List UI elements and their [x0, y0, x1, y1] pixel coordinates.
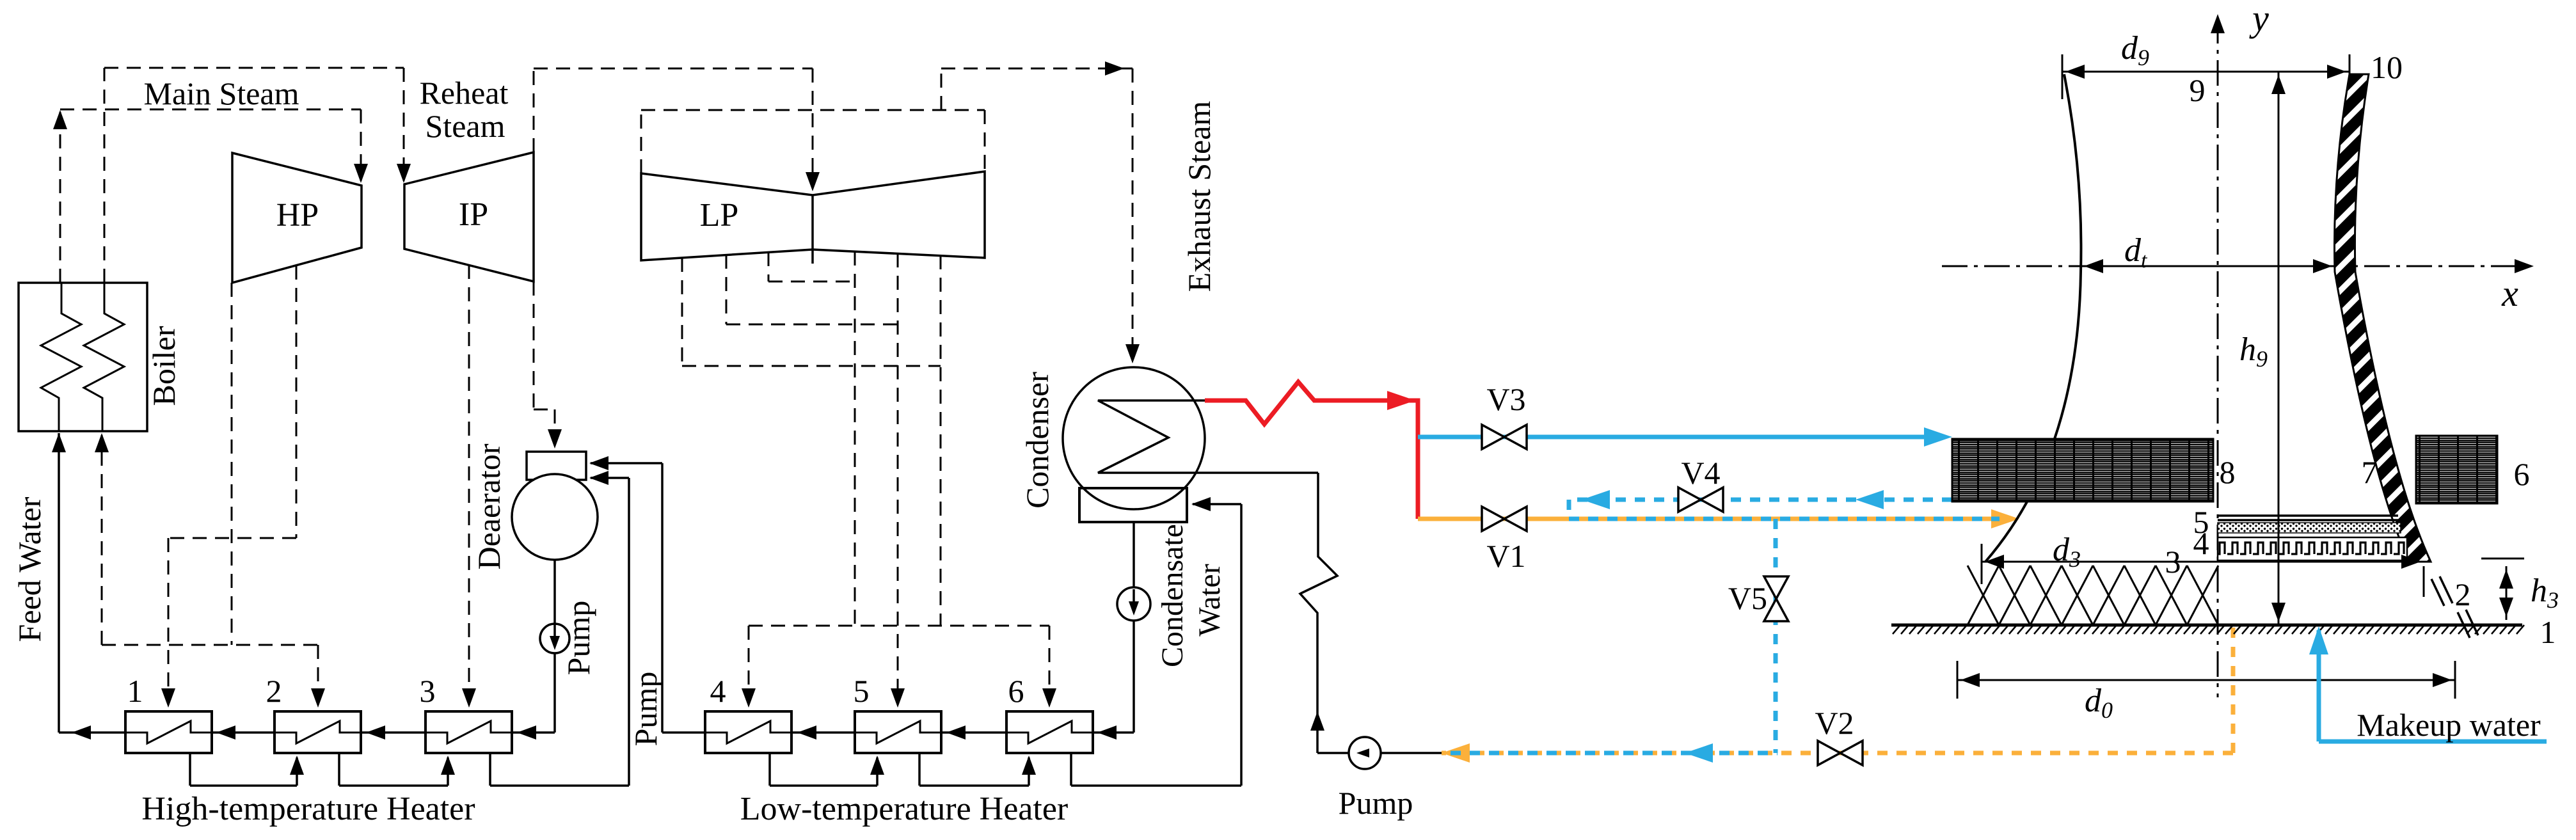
svg-text:HP: HP [276, 197, 319, 234]
svg-text:y: y [2249, 0, 2269, 39]
svg-text:Water: Water [1193, 564, 1227, 636]
svg-text:Pump: Pump [628, 672, 664, 747]
svg-text:2: 2 [2455, 576, 2471, 612]
svg-text:1: 1 [127, 673, 143, 709]
svg-text:5: 5 [854, 673, 870, 709]
svg-text:LP: LP [700, 197, 739, 234]
svg-text:V3: V3 [1486, 381, 1525, 417]
svg-text:V5: V5 [1728, 580, 1767, 616]
svg-text:Steam: Steam [425, 108, 505, 144]
svg-text:Condensate: Condensate [1156, 524, 1189, 667]
svg-text:IP: IP [459, 196, 488, 233]
svg-text:Makeup water: Makeup water [2357, 707, 2541, 743]
svg-text:Condenser: Condenser [1019, 372, 1055, 509]
svg-text:6: 6 [1008, 673, 1024, 709]
svg-text:7: 7 [2362, 454, 2378, 490]
svg-text:Main Steam: Main Steam [143, 75, 299, 111]
svg-text:V4: V4 [1681, 455, 1720, 491]
svg-text:8: 8 [2220, 454, 2236, 490]
svg-text:High-temperature Heater: High-temperature Heater [141, 791, 475, 827]
svg-text:4: 4 [710, 673, 726, 709]
svg-text:x: x [2501, 273, 2518, 314]
svg-text:Deaerator: Deaerator [471, 443, 507, 569]
svg-text:Pump: Pump [1339, 785, 1413, 821]
svg-text:Reheat: Reheat [420, 75, 509, 111]
svg-text:4: 4 [2193, 525, 2209, 561]
svg-text:10: 10 [2371, 49, 2403, 85]
svg-text:9: 9 [2190, 72, 2206, 108]
svg-text:Exhaust Steam: Exhaust Steam [1181, 101, 1217, 292]
svg-text:1: 1 [2540, 614, 2556, 650]
svg-text:3: 3 [420, 673, 436, 709]
svg-text:Feed Water: Feed Water [12, 496, 47, 642]
svg-text:V1: V1 [1486, 538, 1525, 574]
svg-text:V2: V2 [1815, 705, 1854, 741]
svg-text:Boiler: Boiler [146, 326, 182, 406]
svg-text:Low-temperature Heater: Low-temperature Heater [740, 791, 1068, 827]
svg-text:6: 6 [2514, 456, 2530, 492]
svg-text:Pump: Pump [561, 601, 596, 676]
svg-text:2: 2 [266, 673, 282, 709]
